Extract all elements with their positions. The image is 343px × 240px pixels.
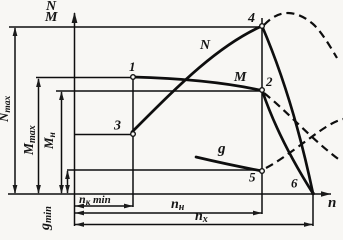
- svg-text:1: 1: [129, 59, 136, 74]
- svg-text:nх: nх: [195, 209, 208, 225]
- svg-text:Mmax: Mmax: [21, 125, 38, 156]
- svg-text:3: 3: [113, 119, 121, 134]
- svg-text:M: M: [233, 70, 247, 85]
- svg-text:5: 5: [249, 170, 256, 185]
- svg-text:g: g: [217, 141, 226, 157]
- svg-text:4: 4: [247, 11, 255, 26]
- svg-text:N: N: [199, 38, 211, 53]
- svg-text:6: 6: [291, 176, 298, 191]
- svg-text:M: M: [44, 10, 58, 25]
- svg-text:nн: nн: [171, 197, 185, 213]
- svg-text:nк min: nк min: [79, 192, 111, 207]
- svg-text:gmin: gmin: [38, 206, 54, 231]
- svg-text:Nmax: Nmax: [0, 95, 13, 123]
- svg-text:n: n: [328, 195, 336, 211]
- svg-text:2: 2: [265, 74, 273, 89]
- svg-text:Mн: Mн: [41, 132, 58, 150]
